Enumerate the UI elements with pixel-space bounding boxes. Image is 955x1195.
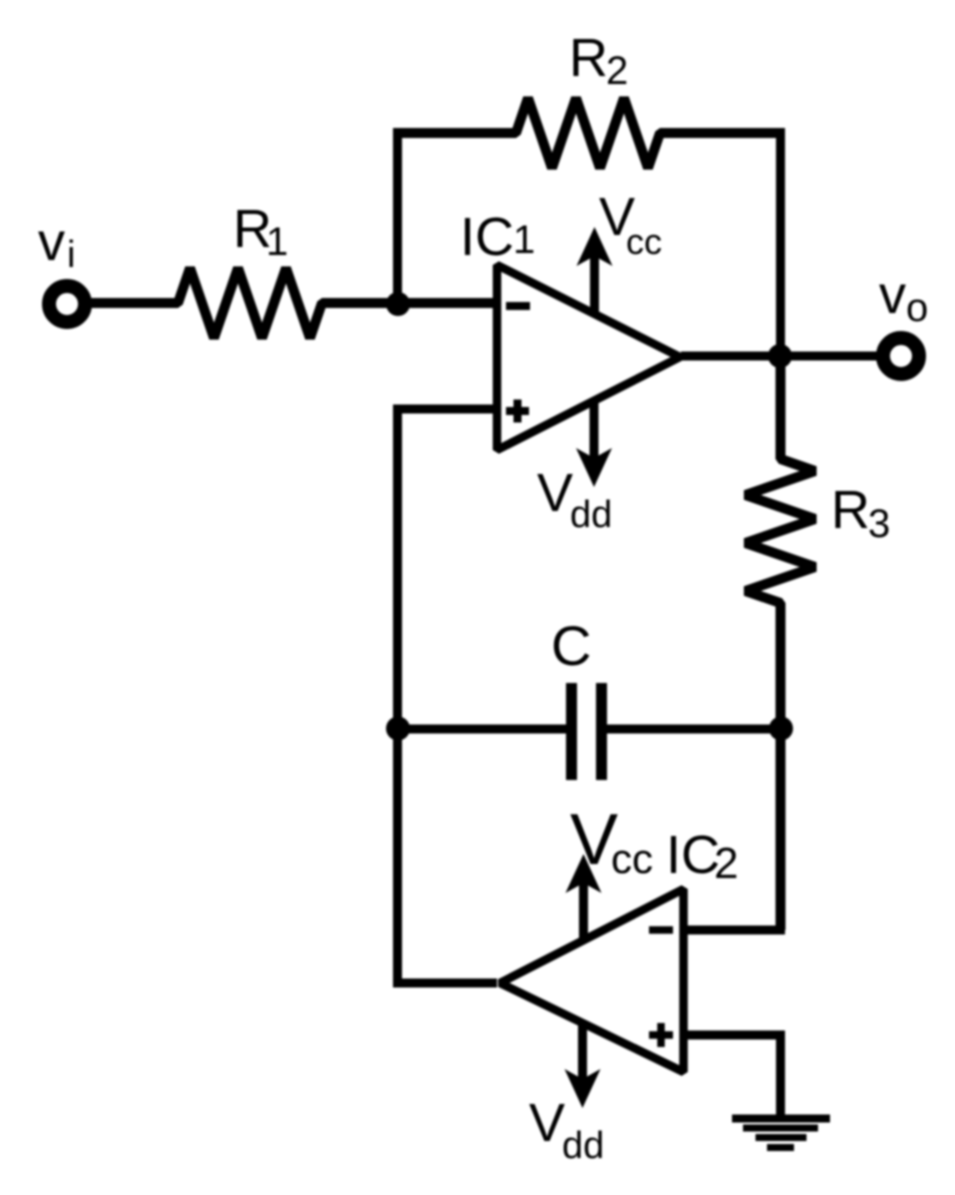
node B junction dot (output / R2 / R3): [768, 344, 792, 368]
svg-text:IC: IC: [666, 825, 720, 885]
wire: left vertical rail (IC1 + input down to IC2 output): [393, 409, 402, 988]
resistor R3 (with leads: output node down to IC2 inverting node): [746, 356, 816, 930]
svg-text:R: R: [831, 480, 870, 540]
svg-text:IC: IC: [460, 207, 514, 267]
svg-text:C: C: [551, 614, 591, 677]
output terminal v_o circle: [883, 338, 919, 374]
wire: IC2 output to left rail: [393, 979, 497, 988]
wire: node A up to feedback R2: [393, 129, 402, 308]
resistor R2 (feedback, with leads across the top): [393, 98, 785, 168]
ground: [732, 1115, 830, 1152]
svg-text:o: o: [906, 286, 928, 330]
svg-text:dd: dd: [562, 1125, 604, 1167]
svg-text:v: v: [38, 212, 65, 272]
svg-text:cc: cc: [611, 835, 653, 882]
wire: capacitor right lead: [607, 725, 785, 734]
wire: IC2 non-inverting input: [684, 1031, 785, 1040]
svg-text:V: V: [537, 463, 573, 523]
svg-text:2: 2: [714, 839, 738, 888]
op-amp U1 IC1 Vdd supply arrow: [576, 403, 612, 487]
svg-text:V: V: [529, 1093, 565, 1153]
capacitor C right plate: [596, 683, 607, 780]
svg-text:3: 3: [868, 502, 890, 546]
wire: right vertical rail from R2 down to output node: [776, 129, 785, 357]
svg-text:v: v: [879, 265, 906, 325]
op-amp IC1 non-inverting input pin label (+): [506, 400, 529, 423]
wire: IC1 output to output terminal: [681, 352, 884, 361]
op-amp IC2 non-inverting input pin label (+): [649, 1023, 673, 1047]
op-amp U2 IC2 Vdd supply arrow: [565, 1024, 601, 1108]
op-amp IC2 inverting input pin label (-): [649, 926, 673, 934]
resistor R1 (with leads: input terminal to IC1 inverting input): [91, 268, 497, 338]
wire: capacitor left lead: [393, 725, 566, 734]
svg-text:cc: cc: [626, 221, 662, 262]
wire: IC1 non-inverting input: [393, 405, 497, 414]
op-amp U2 IC2 Vcc supply arrow: [566, 854, 602, 941]
wire: IC2 inverting input to right rail: [684, 926, 785, 935]
node D junction dot (right cap node): [769, 717, 793, 741]
node A junction dot (R1 / R2 / IC1 -): [386, 292, 410, 316]
svg-text:1: 1: [513, 218, 535, 262]
op-amp IC1 inverting input pin label (-): [506, 302, 530, 310]
op-amp U1 IC1 Vcc supply arrow: [577, 227, 613, 312]
node C junction dot (left cap node): [386, 717, 410, 741]
svg-text:2: 2: [606, 49, 628, 93]
input terminal v_i circle: [49, 286, 85, 322]
wire: IC2 + input down to ground: [776, 1035, 785, 1118]
op-amp U1 IC1 triangle: [497, 265, 680, 450]
svg-text:i: i: [67, 234, 75, 276]
svg-text:dd: dd: [570, 494, 612, 536]
svg-text:R: R: [569, 28, 608, 88]
svg-text:1: 1: [266, 220, 288, 264]
op-amp U2 IC2 triangle (points left): [500, 889, 684, 1072]
capacitor C left plate: [566, 683, 577, 780]
